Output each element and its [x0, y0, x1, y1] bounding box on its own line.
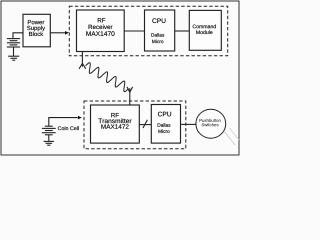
receiver dashed enclosure: [69, 6, 227, 56]
command module: [189, 10, 221, 50]
wire CPU to pushbutton switches: [181, 123, 197, 125]
CPU dallas micro (transmitter): [151, 105, 180, 144]
ground under battery B1: [8, 56, 19, 60]
arrowhead into receiver enclosure: [65, 31, 69, 35]
transmitter dashed enclosure: [84, 101, 186, 149]
power supply block: [23, 14, 50, 47]
ground under coin cell: [44, 141, 54, 145]
wire CPU to command module: [175, 30, 190, 32]
wire power supply to battery: [13, 33, 23, 38]
bus slash on transmitter wire: [143, 120, 147, 128]
CPU dallas micro (receiver): [145, 10, 175, 51]
transmitter antenna: [127, 87, 133, 105]
receiver antenna: [79, 52, 86, 69]
outer border frame: [1, 1, 239, 155]
coin cell label: [58, 126, 79, 130]
pushbutton switches circle: [196, 109, 226, 138]
artifact diagonal marks: [224, 128, 239, 145]
RF transmitter MAX1472: [91, 105, 140, 143]
RF receiver MAX1470: [77, 10, 125, 52]
wire transmitter to CPU: [139, 124, 151, 126]
RF link squiggle: [86, 63, 129, 92]
wire receiver to CPU: [124, 30, 144, 32]
arrowhead into transmitter enclosure: [78, 116, 82, 120]
coin cell battery: [42, 118, 78, 142]
battery B1: [7, 39, 20, 56]
wire power supply to receiver enclosure: [50, 32, 65, 34]
